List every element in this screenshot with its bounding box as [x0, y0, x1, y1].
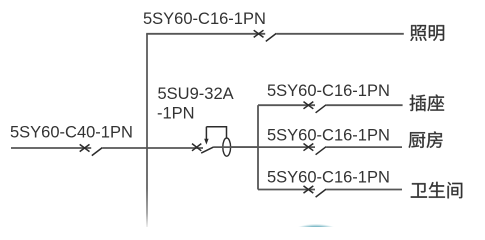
svg-text:5SY60-C16-1PN: 5SY60-C16-1PN [267, 82, 390, 100]
wire: bathroom branch [258, 189, 315, 191]
breaker 5SY60-C16-1PN kitchen [304, 144, 327, 155]
svg-text:-1PN: -1PN [157, 105, 195, 123]
svg-text:5SU9-32A: 5SU9-32A [158, 85, 234, 103]
svg-text:5SY60-C16-1PN: 5SY60-C16-1PN [143, 10, 266, 28]
label 厨房 (kitchen) [409, 131, 443, 148]
breaker 5SY60-C16-1PN socket [304, 102, 327, 113]
svg-text:5SY60-C16-1PN: 5SY60-C16-1PN [267, 127, 390, 145]
svg-text:5SY60-C40-1PN: 5SY60-C40-1PN [10, 124, 133, 142]
breaker 5SY60-C40-1PN [80, 144, 103, 155]
label 照明 (lighting) [410, 25, 444, 41]
RCD 5SU9-32A-1PN [192, 127, 231, 157]
wire: vertical riser (fades at bottom) [146, 34, 148, 227]
breaker 5SY60-C16-1PN lighting [254, 30, 277, 41]
wire: lighting branch out [276, 33, 404, 35]
wire: RCD to bus [214, 146, 259, 148]
label 插座 (socket) [410, 94, 444, 111]
wire: kitchen branch out [326, 146, 402, 148]
wire: socket branch out [326, 104, 403, 106]
wire: kitchen branch [231, 146, 315, 148]
wire: feeder to RCD [102, 147, 203, 149]
blue button remnant at bottom edge [292, 224, 341, 240]
wire: bathroom branch out [326, 189, 402, 191]
wire: socket branch [258, 104, 315, 106]
label 卫生间 (bathroom) [411, 182, 462, 199]
svg-text:5SY60-C16-1PN: 5SY60-C16-1PN [267, 168, 390, 186]
breaker 5SY60-C16-1PN bathroom [304, 186, 327, 197]
wire: right distribution bus [257, 105, 259, 189]
wire: lighting branch [146, 33, 265, 35]
wire: incoming feeder [11, 147, 91, 149]
